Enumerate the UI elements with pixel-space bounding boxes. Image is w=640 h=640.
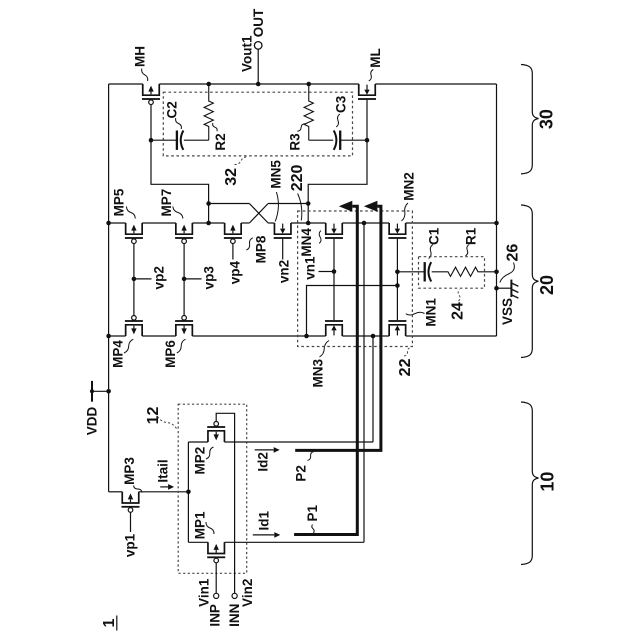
dashed box 12 <box>178 404 247 573</box>
svg-text:ML: ML <box>368 48 383 68</box>
wire: row-2 line segments <box>109 335 497 337</box>
junction dot row1-VSS <box>494 221 499 226</box>
label MP1 <box>193 511 214 539</box>
label VDD <box>85 407 100 436</box>
label vn1 <box>303 256 318 280</box>
svg-text:Vin2: Vin2 <box>240 579 255 607</box>
transistor MN4 <box>325 223 343 239</box>
label 26 <box>500 244 522 283</box>
svg-text:MN5: MN5 <box>269 160 284 189</box>
svg-text:vp2: vp2 <box>152 266 167 289</box>
transistor MH <box>142 84 160 104</box>
svg-text:Id1: Id1 <box>257 510 272 530</box>
svg-text:OUT: OUT <box>251 8 266 37</box>
label MP7 <box>159 189 183 219</box>
junction dot tail node <box>186 490 191 495</box>
label 22 <box>397 348 414 377</box>
label C3 <box>334 95 349 127</box>
wire: cross diagonal B <box>249 204 268 224</box>
wire: Id1 drain line (MP1 drain up to row-1 node) <box>363 223 365 542</box>
label MN2 <box>402 172 417 221</box>
wire: output column top-left segment <box>109 83 143 85</box>
wire: vp4 stub (MP8 gate) <box>232 244 234 260</box>
svg-text:MP1: MP1 <box>193 511 208 539</box>
svg-text:MN4: MN4 <box>299 228 314 257</box>
svg-text:32: 32 <box>223 168 240 186</box>
wire: Vout segment between MH and ML <box>159 83 359 85</box>
svg-text:vp4: vp4 <box>228 260 243 284</box>
label MP8 <box>246 235 268 263</box>
junction dot row2-VDD <box>106 334 111 339</box>
wire: MP1 gate lead to INP <box>215 563 217 594</box>
terminal OUT <box>254 42 262 84</box>
svg-text:Id2: Id2 <box>256 452 271 472</box>
resistor R2 <box>204 84 213 140</box>
label ML <box>368 48 383 81</box>
wire: vn1 chain (MN4 gate to MN3 gate) <box>319 239 337 320</box>
wire: node line right (R3 - C3 - ML gate) <box>309 139 367 141</box>
capacitor C2 <box>177 131 184 150</box>
brace 30 (output stage) <box>521 65 539 174</box>
signal path P1 (bold) <box>294 201 357 535</box>
svg-text:C3: C3 <box>334 95 349 113</box>
brace 20 (second stage) <box>521 205 539 358</box>
wire: vn2 stub (MN5 gate) <box>282 239 284 260</box>
label 220 with leader <box>289 164 306 220</box>
svg-text:Vout1: Vout1 <box>239 35 254 72</box>
svg-text:MN1: MN1 <box>424 298 439 327</box>
svg-text:Itail: Itail <box>155 459 170 482</box>
svg-text:MP6: MP6 <box>163 340 178 368</box>
svg-text:20: 20 <box>537 275 557 295</box>
transistor MP1 with source/drain wires <box>188 542 364 563</box>
junction dot row1-VDD <box>106 221 111 226</box>
label OUT <box>251 8 266 37</box>
label MN5 <box>269 160 284 222</box>
wire: tail vertical <box>187 442 189 542</box>
label R3 <box>288 124 305 151</box>
svg-text:MP3: MP3 <box>122 457 137 485</box>
wire: ML to VSS corner <box>375 83 496 85</box>
label MN1 <box>406 298 439 327</box>
transistor MP5 <box>125 223 143 244</box>
ground VSS <box>494 280 518 299</box>
svg-text:vp1: vp1 <box>123 533 138 557</box>
terminal INP <box>214 593 219 598</box>
transistor MN2 <box>388 223 406 239</box>
dashed box 22 <box>298 211 413 347</box>
svg-text:C2: C2 <box>164 101 179 118</box>
label vp4 <box>228 260 243 284</box>
svg-text:MP8: MP8 <box>253 235 268 263</box>
transistor ML <box>358 84 376 100</box>
label Vin2 <box>240 579 255 607</box>
resistor R3 <box>304 84 313 140</box>
transistor MP8 <box>224 223 242 244</box>
label Id1 with arrow <box>253 510 280 537</box>
transistor MN1 <box>388 320 406 336</box>
wire: Id2 drain line (MP2 drain up to row-2 node) <box>372 336 374 442</box>
wire: MN2 gate chain down to MN1 gate <box>395 239 400 320</box>
resistor R1 <box>432 267 497 276</box>
svg-text:1: 1 <box>101 618 118 627</box>
label 30 <box>537 109 557 129</box>
label vp1 <box>123 533 138 557</box>
figure reference 1 (underlined) <box>101 616 118 631</box>
svg-text:vp3: vp3 <box>202 266 217 290</box>
wire: vp2 chain (MP5 gate to MP4 gate) <box>132 244 152 316</box>
svg-text:vn2: vn2 <box>277 260 292 283</box>
capacitor C3 <box>334 131 341 150</box>
label MP6 <box>163 339 185 368</box>
svg-text:Vin1: Vin1 <box>196 578 211 607</box>
capacitor C1 <box>425 262 432 281</box>
label P2 <box>293 452 313 482</box>
label INP <box>208 604 223 627</box>
svg-text:R2: R2 <box>213 133 228 150</box>
label R1 <box>463 227 478 256</box>
label MP2 <box>193 447 214 475</box>
svg-text:C1: C1 <box>427 227 442 245</box>
label MH <box>133 46 148 81</box>
svg-text:10: 10 <box>538 472 558 492</box>
svg-text:R1: R1 <box>463 227 478 245</box>
wire: MH gate chain to node A <box>149 105 209 223</box>
label 10 <box>538 472 558 492</box>
label vp2 <box>152 266 167 289</box>
wire: node A horizontal <box>209 203 250 205</box>
svg-text:12: 12 <box>145 407 162 425</box>
svg-text:VSS: VSS <box>500 298 515 325</box>
wire: vp1 stub (MP3 gate) <box>130 512 132 532</box>
wire: VSS rail (right) <box>496 84 498 336</box>
junction dot row2-Id2 <box>371 334 376 339</box>
label MP5 <box>112 188 136 218</box>
wire: row-1 line segments <box>109 222 497 224</box>
label MN4 <box>299 228 321 257</box>
signal path P2 (bold) <box>295 201 381 451</box>
label Vout1 <box>239 35 254 72</box>
label MP3 <box>122 457 142 493</box>
junction dots node A <box>206 201 211 225</box>
wire: VDD rail (left) <box>108 84 110 492</box>
svg-text:R3: R3 <box>288 133 303 151</box>
brace 10 (input stage) <box>521 402 539 565</box>
svg-text:MN2: MN2 <box>402 172 417 201</box>
label Itail with arrow <box>155 459 174 489</box>
label C2 <box>164 101 181 129</box>
dashed box 24 <box>419 257 485 289</box>
transistor MP2 with source/drain wires <box>188 422 373 443</box>
svg-text:26: 26 <box>505 244 522 262</box>
label R2 <box>213 123 228 151</box>
transistor MP7 <box>175 223 193 244</box>
svg-text:P1: P1 <box>305 505 320 522</box>
label vp3 <box>202 266 217 290</box>
transistor MN3 <box>325 320 343 336</box>
transistor MP3 <box>109 492 189 513</box>
wire: node line left (MH gate - C2 - R2) <box>151 139 209 141</box>
wire: cross diagonal A <box>249 204 268 224</box>
label MN3 <box>310 341 329 388</box>
svg-text:MN3: MN3 <box>310 358 325 387</box>
junction dots node 220 <box>306 201 311 225</box>
svg-text:MP7: MP7 <box>159 189 174 217</box>
svg-text:vn1: vn1 <box>303 256 318 280</box>
wire: MN2 gate to C1 <box>397 271 424 273</box>
label P1 <box>305 505 320 533</box>
svg-text:VDD: VDD <box>85 407 100 436</box>
junction dot C1R1-VSS <box>494 270 499 275</box>
transistor MP6 <box>175 316 193 337</box>
wire: MN2 gate branch to row2 left node <box>304 286 397 339</box>
label 32 <box>223 157 248 186</box>
label C1 <box>427 227 442 258</box>
label Vin1 <box>196 578 211 607</box>
terminal INN <box>232 593 237 598</box>
label Id2 with arrow <box>255 447 280 472</box>
wire: MP2 gate top link to INN line <box>216 413 234 593</box>
svg-text:MP4: MP4 <box>111 340 126 368</box>
junction dot row1-Id1 <box>362 221 367 226</box>
wire: ML gate chain to node 220 <box>308 100 369 223</box>
transistor MN5 <box>274 223 292 239</box>
svg-text:24: 24 <box>450 302 467 320</box>
label VSS <box>500 298 515 325</box>
dashed box 32 <box>163 92 352 156</box>
transistor MP4 <box>125 316 143 337</box>
label 12 <box>145 407 177 429</box>
label vn2 <box>277 260 292 283</box>
power VDD symbol <box>90 381 111 402</box>
label 20 <box>537 275 557 295</box>
svg-text:MP5: MP5 <box>112 188 127 216</box>
svg-text:MP2: MP2 <box>193 447 208 475</box>
wire: vp3 chain (MP7 gate to MP6 gate) <box>182 244 202 316</box>
svg-text:220: 220 <box>289 164 306 191</box>
label 24 <box>450 290 467 320</box>
svg-text:P2: P2 <box>293 465 308 482</box>
label MP4 <box>111 339 134 368</box>
svg-text:30: 30 <box>537 109 557 129</box>
label INN <box>227 604 242 627</box>
svg-text:22: 22 <box>397 358 414 376</box>
wire: node 220 horizontal <box>268 203 308 205</box>
svg-text:MH: MH <box>133 46 148 67</box>
junction dots on output rail <box>206 82 311 87</box>
